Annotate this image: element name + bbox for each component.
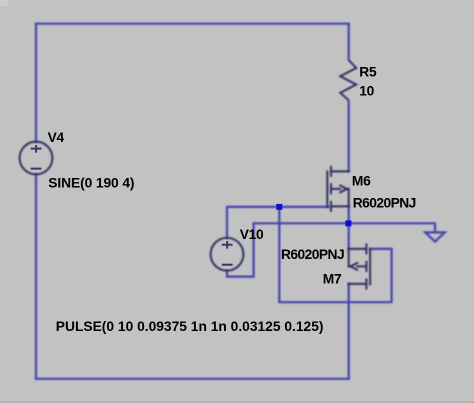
V4 polarity plus/minus marks: [31, 145, 42, 169]
voltage source V4: [20, 142, 53, 175]
wire top-right drop to R5: [348, 24, 350, 60]
node junction at V10/M6 gate: [276, 204, 282, 210]
wire junction to M7 drain: [348, 223, 350, 249]
wire left rail upper: [35, 24, 37, 142]
wire V10 minus loop: [227, 223, 254, 276]
svg-text:PULSE(0 10 0.09375 1n 1n 0.031: PULSE(0 10 0.09375 1n 1n 0.03125 0.125): [56, 319, 324, 334]
wire R5 bottom to M6 source: [348, 101, 350, 171]
svg-text:V10: V10: [240, 227, 264, 242]
svg-text:R6020PNJ: R6020PNJ: [353, 196, 416, 211]
wire left rail lower: [35, 174, 37, 378]
wire V10 plus to gate node: [227, 207, 279, 238]
wire gate node to M6 gate: [279, 206, 328, 208]
svg-text:R6020PNJ: R6020PNJ: [281, 247, 344, 262]
resistor R5: [340, 60, 356, 100]
V10 polarity plus/minus marks: [222, 241, 233, 265]
svg-text:10: 10: [359, 84, 374, 99]
wire right riser from bottom rail to M7 source: [348, 284, 350, 379]
svg-text:SINE(0 190 4): SINE(0 190 4): [48, 175, 134, 190]
svg-text:M6: M6: [352, 174, 371, 189]
wire gate node down and around to M7 gate: [279, 207, 391, 302]
wire junction row to ground: [254, 223, 435, 232]
wire bottom rail: [36, 378, 349, 380]
voltage source V10: [211, 238, 244, 271]
svg-text:M7: M7: [323, 271, 342, 286]
svg-text:R5: R5: [359, 65, 377, 80]
transistor M7 (PMOS, rotated 180): [349, 244, 370, 288]
wire M6 drain to junction node: [348, 207, 350, 224]
wire top rail: [36, 23, 349, 25]
ground symbol: [425, 232, 445, 241]
transistor M6 (PMOS): [327, 167, 348, 211]
svg-text:V4: V4: [48, 130, 65, 145]
node junction at M6 drain / ground row: [345, 220, 351, 226]
